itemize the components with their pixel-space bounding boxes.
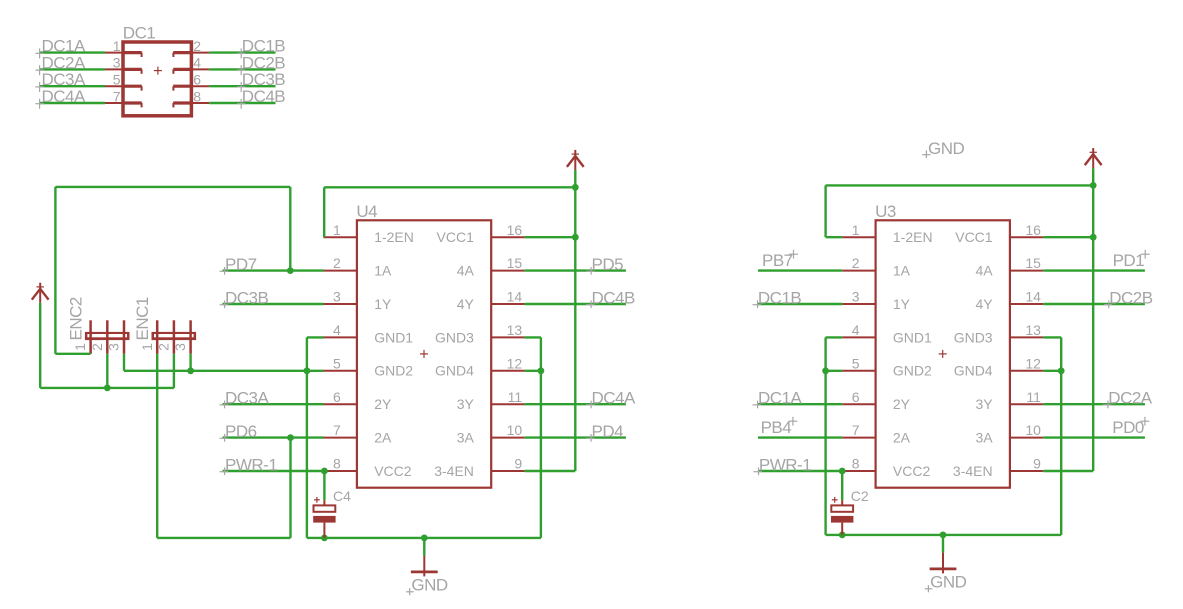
net label DC3A [35, 70, 86, 92]
U3 pin 12 stub [1010, 370, 1043, 372]
svg-text:12: 12 [1025, 355, 1041, 371]
U4 pin 10 stub [491, 437, 524, 439]
junction GND4 chain [538, 367, 545, 374]
svg-text:GND3: GND3 [954, 329, 993, 345]
connector ENC1 body bar [152, 332, 197, 340]
wire ENC2 pin3 drop [123, 354, 125, 371]
wire U3 pin4 GND1 to chain [826, 336, 843, 338]
svg-text:10: 10 [507, 422, 523, 438]
svg-text:VCC1: VCC1 [955, 229, 993, 245]
wire U3 pin12 GND4 to chain [1043, 370, 1061, 372]
wire net DC4B [525, 303, 626, 305]
svg-text:PB4: PB4 [761, 418, 792, 437]
U3 pin 4 stub [842, 336, 875, 338]
connector ENC2 body bar [85, 332, 130, 340]
svg-text:5: 5 [852, 355, 860, 371]
svg-text:PD7: PD7 [225, 255, 257, 274]
svg-text:16: 16 [1025, 222, 1041, 238]
wire net PB7 to U3 pin2 [758, 269, 842, 271]
U4 pin 9 stub [491, 470, 524, 472]
svg-text:15: 15 [507, 255, 523, 271]
svg-text:ENC2: ENC2 [66, 297, 85, 340]
svg-text:3: 3 [333, 289, 341, 305]
wire U4 pin13 GND3 to chain [525, 336, 541, 338]
svg-text:PD1: PD1 [1113, 251, 1145, 270]
wire net PD0 [1043, 436, 1145, 438]
svg-text:GND4: GND4 [435, 363, 474, 379]
U3 pin 5 stub [842, 370, 875, 372]
svg-text:5: 5 [333, 355, 341, 371]
svg-text:1-2EN: 1-2EN [374, 229, 414, 245]
wire net DC3B to U4 pin3 [223, 303, 324, 305]
wire U4 pin4 GND1 to chain [307, 336, 324, 338]
wire net DC2A [39, 68, 105, 70]
supply symbol VCC arrow above U3 [1085, 148, 1102, 168]
svg-text:DC3B: DC3B [225, 289, 269, 308]
svg-text:4: 4 [193, 55, 201, 71]
svg-text:4Y: 4Y [457, 296, 475, 312]
svg-text:2: 2 [89, 343, 105, 351]
svg-text:16: 16 [507, 222, 523, 238]
wire net DC2A [1043, 403, 1145, 405]
wire PD6 loop bottom horizontal [157, 537, 290, 539]
wire PD6 loop vertical right [289, 438, 291, 538]
wire net PD4 [525, 436, 626, 438]
connector DC1 center cross [154, 67, 162, 75]
junction PD7 [287, 267, 294, 274]
net label PB7 [762, 251, 793, 270]
svg-text:C4: C4 [333, 488, 351, 504]
supply net VCC right of U3: vertical from arrow to pin 9 [1092, 168, 1094, 471]
supply symbol GND below U4 [406, 538, 448, 595]
U3 pin 3 stub [842, 303, 875, 305]
junction GND rail C4 [321, 535, 328, 542]
U4 pin 15 stub [491, 270, 524, 272]
svg-text:8: 8 [852, 456, 860, 472]
svg-text:PD0: PD0 [1112, 418, 1144, 437]
supply symbol VCC arrow above U4 [567, 150, 584, 170]
svg-text:VCC1: VCC1 [437, 229, 475, 245]
svg-text:PWR-1: PWR-1 [759, 456, 811, 475]
net label DC3A [225, 389, 270, 408]
svg-text:6: 6 [852, 389, 860, 405]
U4 pin 5 stub [324, 370, 357, 372]
U3 pin 13 stub [1010, 336, 1043, 338]
svg-text:3A: 3A [457, 430, 475, 446]
svg-text:1: 1 [333, 222, 341, 238]
wire GND chain right of U4 vertical [540, 337, 542, 538]
svg-text:3A: 3A [975, 430, 993, 446]
wire U3 pin16 to VCC vertical [1043, 236, 1093, 238]
svg-text:12: 12 [507, 355, 523, 371]
wire U4 pin5 GND2 row to encoder pins 3 [124, 370, 324, 372]
svg-text:13: 13 [507, 322, 523, 338]
svg-text:GND3: GND3 [435, 329, 474, 345]
U4 pin 8 stub [324, 470, 357, 472]
svg-text:VCC2: VCC2 [893, 463, 931, 479]
svg-text:3: 3 [172, 343, 188, 351]
connector DC1 body [123, 42, 191, 116]
capacitor C4 [313, 488, 351, 538]
net label DC3B [237, 70, 285, 92]
junction GND2 chain U3 [822, 367, 829, 374]
net label DC2A [1108, 389, 1153, 408]
junction GND2 chain [304, 367, 311, 374]
U4 pin 7 stub [324, 437, 357, 439]
U4 pin 12 stub [491, 370, 524, 372]
wire PWR-1 down to C4 [323, 471, 325, 500]
U3 pin 2 stub [842, 270, 875, 272]
svg-text:4Y: 4Y [975, 296, 993, 312]
U3 pin 16 stub [1010, 236, 1043, 238]
U4 pin 3 stub [324, 303, 357, 305]
svg-text:3Y: 3Y [975, 396, 993, 412]
svg-text:2Y: 2Y [893, 396, 911, 412]
svg-text:7: 7 [852, 422, 860, 438]
svg-text:2: 2 [333, 255, 341, 271]
wire U3 pin9 to VCC vertical [1043, 470, 1093, 472]
svg-text:4: 4 [333, 322, 341, 338]
junction GND rail symbol drop [421, 535, 428, 542]
wire net PD6 to U4 pin7 [223, 436, 324, 438]
svg-text:GND1: GND1 [374, 329, 413, 345]
net label PD1 [1113, 251, 1145, 270]
wire net DC1B [209, 51, 275, 53]
wire PD7 loop top horizontal [55, 186, 290, 188]
svg-text:7: 7 [113, 88, 121, 104]
svg-text:PD4: PD4 [592, 422, 624, 441]
svg-text:ENC1: ENC1 [133, 297, 152, 340]
wire net PB4 to U3 pin7 [758, 436, 842, 438]
svg-text:DC4A: DC4A [592, 389, 637, 408]
svg-text:2: 2 [156, 343, 172, 351]
svg-text:DC4B: DC4B [592, 289, 636, 308]
wire net DC4B [209, 102, 275, 104]
svg-text:14: 14 [1025, 289, 1041, 305]
wire net DC1A [39, 51, 105, 53]
svg-text:6: 6 [333, 389, 341, 405]
svg-text:GND1: GND1 [893, 329, 932, 345]
svg-text:8: 8 [333, 456, 341, 472]
wire PWR-1 down to C2 [841, 471, 843, 500]
svg-text:9: 9 [1033, 456, 1041, 472]
junction VCC top U3 [1090, 182, 1097, 189]
svg-text:3: 3 [113, 55, 121, 71]
wire PD7 to ENC2 pin1 [55, 353, 90, 355]
net label DC4B [237, 87, 285, 109]
wire ENC2 pin2 drop [106, 354, 108, 388]
DC1 pin 3 [105, 69, 142, 73]
wire net DC4A [525, 403, 626, 405]
IC U3 body [875, 202, 1010, 488]
net label DC4A [592, 389, 637, 408]
wire PD7 loop vertical right [289, 187, 291, 271]
svg-text:2A: 2A [374, 430, 392, 446]
U3 pin 8 stub [842, 470, 875, 472]
wire U3 pin13 GND3 to chain [1043, 336, 1061, 338]
svg-text:3-4EN: 3-4EN [434, 463, 474, 479]
DC1 pin 8 [173, 103, 209, 107]
junction PWR-1 C4 [321, 468, 328, 475]
wire net DC2B [1043, 303, 1145, 305]
svg-text:PD5: PD5 [592, 255, 624, 274]
svg-text:GND: GND [928, 139, 965, 158]
DC1 pin 1 [105, 53, 142, 57]
wire ENC1 pin3 drop [189, 354, 191, 371]
svg-text:PD6: PD6 [225, 422, 257, 441]
U4 pin 16 stub [491, 236, 524, 238]
svg-text:4: 4 [852, 322, 860, 338]
svg-text:GND: GND [930, 573, 967, 592]
U3 pin 15 stub [1010, 270, 1043, 272]
supply net VCC left: arrow wire down and across to encoders [39, 303, 41, 388]
ENC1 pin 3 [189, 320, 192, 354]
junction ENC2 pin2 [104, 385, 111, 392]
svg-text:3-4EN: 3-4EN [953, 463, 993, 479]
wire VCC drop to U4 pin 1 [323, 187, 325, 237]
wire U4 pin9 to VCC vertical [525, 470, 576, 472]
wire net PWR-1 to U3 pin8 [758, 470, 842, 472]
wire U3 pin1 stub link [826, 236, 843, 238]
wire net DC1A to U3 pin6 [758, 403, 842, 405]
DC1 pin 4 [173, 69, 209, 73]
U4 pin 11 stub [491, 403, 524, 405]
DC1 pin 5 [105, 86, 142, 90]
junction GND rail C2 [839, 532, 846, 539]
svg-text:10: 10 [1025, 422, 1041, 438]
net label DC3B [225, 289, 269, 308]
wire U4 pin12 GND4 to chain [525, 370, 541, 372]
svg-text:6: 6 [193, 72, 201, 88]
svg-text:9: 9 [514, 456, 522, 472]
floating net label GND above U3 [922, 139, 964, 158]
svg-text:GND2: GND2 [374, 363, 413, 379]
net label PB4 [761, 418, 792, 437]
wire GND chain right of U3 vertical [1060, 337, 1062, 535]
svg-text:3: 3 [852, 289, 860, 305]
net label DC2A [35, 53, 86, 75]
svg-text:13: 13 [1025, 322, 1041, 338]
net label PD7 [225, 255, 257, 274]
svg-text:1: 1 [113, 38, 121, 54]
net label DC2B [1109, 289, 1153, 308]
U3 pin 14 stub [1010, 303, 1043, 305]
ENC2 pin 2 [106, 320, 109, 354]
svg-text:1-2EN: 1-2EN [893, 229, 933, 245]
net label DC2B [237, 53, 285, 75]
U4 pin 14 stub [491, 303, 524, 305]
wire net DC3A to U4 pin6 [223, 403, 324, 405]
wire PD7 loop vertical left [54, 187, 56, 354]
net label DC1B [758, 289, 802, 308]
svg-text:2A: 2A [893, 430, 911, 446]
svg-text:5: 5 [113, 72, 121, 88]
U4 pin 2 stub [324, 270, 357, 272]
ENC2 pin 1 [89, 320, 92, 354]
net label DC1B [237, 37, 285, 59]
svg-text:7: 7 [333, 422, 341, 438]
svg-text:DC1A: DC1A [758, 389, 803, 408]
svg-text:1A: 1A [893, 263, 911, 279]
supply symbol VCC arrow left of encoders [32, 283, 49, 303]
svg-text:VCC2: VCC2 [374, 463, 412, 479]
svg-text:1Y: 1Y [374, 296, 392, 312]
svg-text:U4: U4 [356, 202, 377, 221]
wire GND chain left of U3 vertical [824, 337, 826, 535]
svg-text:PWR-1: PWR-1 [225, 456, 277, 475]
svg-text:3Y: 3Y [457, 396, 475, 412]
wire net DC4A [39, 102, 105, 104]
net label DC4B [592, 289, 636, 308]
ENC1 pin 1 [156, 320, 159, 354]
ENC2 pin 3 [123, 320, 126, 354]
svg-text:DC2A: DC2A [1108, 389, 1153, 408]
svg-text:DC1B: DC1B [758, 289, 802, 308]
U4 pin 13 stub [491, 336, 524, 338]
svg-text:2: 2 [852, 255, 860, 271]
net label PWR-1 left of U3 [759, 456, 811, 475]
wire ENC1 pin1 drop [156, 354, 158, 538]
net label PD4 [592, 422, 624, 441]
svg-text:1: 1 [852, 222, 860, 238]
wire net PD5 [525, 269, 626, 271]
svg-text:PB7: PB7 [762, 251, 793, 270]
net label PWR-1 left of U4 [225, 456, 277, 475]
svg-text:14: 14 [507, 289, 523, 305]
U3 pin 9 stub [1010, 470, 1043, 472]
svg-text:DC4A: DC4A [42, 87, 87, 106]
supply net VCC right of U4: vertical from arrow to pin 9 [574, 170, 576, 471]
U3 pin 11 stub [1010, 403, 1043, 405]
svg-text:DC2B: DC2B [1109, 289, 1153, 308]
svg-text:DC1: DC1 [123, 23, 156, 42]
svg-text:1Y: 1Y [893, 296, 911, 312]
svg-text:U3: U3 [875, 202, 896, 221]
wire GND rail under U3 [826, 534, 1062, 536]
svg-text:15: 15 [1025, 255, 1041, 271]
svg-text:4A: 4A [457, 263, 475, 279]
junction PD6 [287, 434, 294, 441]
wire U3 pin5 GND2 to chain [826, 370, 843, 372]
svg-text:DC3A: DC3A [225, 389, 270, 408]
wire ENC1 pin2 drop [173, 354, 175, 388]
svg-text:C2: C2 [851, 488, 869, 504]
net label DC4A [35, 87, 86, 109]
wire net DC3A [39, 85, 105, 87]
svg-text:4A: 4A [975, 263, 993, 279]
svg-text:11: 11 [508, 389, 523, 405]
svg-text:11: 11 [1026, 389, 1041, 405]
wire net PD7 to U4 pin2 [223, 269, 324, 271]
svg-text:1A: 1A [374, 263, 392, 279]
U4 pin 6 stub [324, 403, 357, 405]
U3 pin 7 stub [842, 437, 875, 439]
wire GND chain left of U4 vertical [306, 337, 308, 538]
svg-text:3: 3 [106, 343, 122, 351]
wire VCC to U4 pin1: top horizontal [324, 186, 575, 188]
net label PD5 [592, 255, 624, 274]
svg-text:DC4B: DC4B [242, 87, 286, 106]
IC U4 body [356, 202, 491, 488]
U3 pin 6 stub [842, 403, 875, 405]
junction GND4 chain U3 [1058, 367, 1065, 374]
wire net DC3B [209, 85, 275, 87]
svg-text:GND2: GND2 [893, 363, 932, 379]
wire VCC drop to U3 pin 1 [824, 185, 826, 237]
junction VCC pin16 U3 [1090, 234, 1097, 241]
wire U4 pin16 to VCC vertical [525, 236, 576, 238]
svg-text:2: 2 [193, 38, 201, 54]
U3 pin 10 stub [1010, 437, 1043, 439]
junction PWR-1 C2 [839, 468, 846, 475]
wire net PD1 [1043, 269, 1145, 271]
DC1 pin 2 [173, 53, 209, 57]
wire net DC1B to U3 pin3 [758, 303, 842, 305]
junction ENC1 pin3 [187, 367, 194, 374]
U3 pin 1 stub [842, 236, 875, 238]
junction GND rail symbol drop U3 [940, 532, 947, 539]
svg-text:2Y: 2Y [374, 396, 392, 412]
wire VCC to U3 pin1: top horizontal [826, 184, 1094, 186]
svg-text:GND4: GND4 [954, 363, 993, 379]
wire GND rail under U4 [307, 537, 541, 539]
DC1 pin 6 [173, 86, 209, 90]
DC1 pin 7 [105, 103, 142, 107]
wire net PWR-1 to U4 pin8 [223, 470, 324, 472]
U4 pin 1 stub [324, 236, 357, 238]
capacitor C2 [831, 488, 869, 535]
wire VCC horizontal to ENC1 pin2 [40, 387, 174, 389]
U4 pin 4 stub [324, 336, 357, 338]
net label DC1A [35, 37, 86, 59]
svg-text:GND: GND [411, 576, 448, 595]
svg-text:1: 1 [139, 343, 155, 351]
junction VCC top [572, 184, 579, 191]
net label PD6 [225, 422, 257, 441]
ENC1 pin 2 [173, 320, 176, 354]
junction VCC pin16 [572, 234, 579, 241]
supply symbol GND below U3 [925, 535, 967, 592]
wire net DC2B [209, 68, 275, 70]
svg-text:8: 8 [193, 88, 201, 104]
svg-text:1: 1 [72, 343, 88, 351]
net label PD0 [1112, 418, 1144, 437]
net label DC1A [758, 389, 803, 408]
